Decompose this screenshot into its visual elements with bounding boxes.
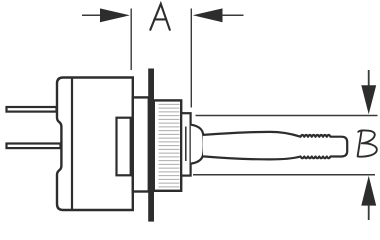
toggle lever [203,132,347,160]
switch body outline [57,78,133,211]
toggle dome [191,125,204,164]
terminal pin 1 [7,107,57,112]
dim B bottom extension line [193,174,375,176]
dim B bottom arrow [361,176,376,220]
bushing thread hatch lines [159,104,180,186]
label A [150,4,170,30]
mounting panel plate [148,69,154,222]
toggle dome base line [185,127,187,162]
dim A right extension line [190,9,192,108]
body inner vertical line [71,78,73,211]
threaded bushing outline [154,100,181,190]
dim A left extension line [130,9,132,71]
dim B top arrow [361,70,376,114]
collar ring [181,113,190,175]
dim B top extension line [196,115,378,117]
terminal pin 2 [7,144,61,149]
dim A right arrow [193,8,244,22]
inner rectangle (mechanism) [117,118,131,176]
dim A left arrow [82,8,130,22]
neck between body and panel [133,97,149,191]
label B [358,130,377,156]
